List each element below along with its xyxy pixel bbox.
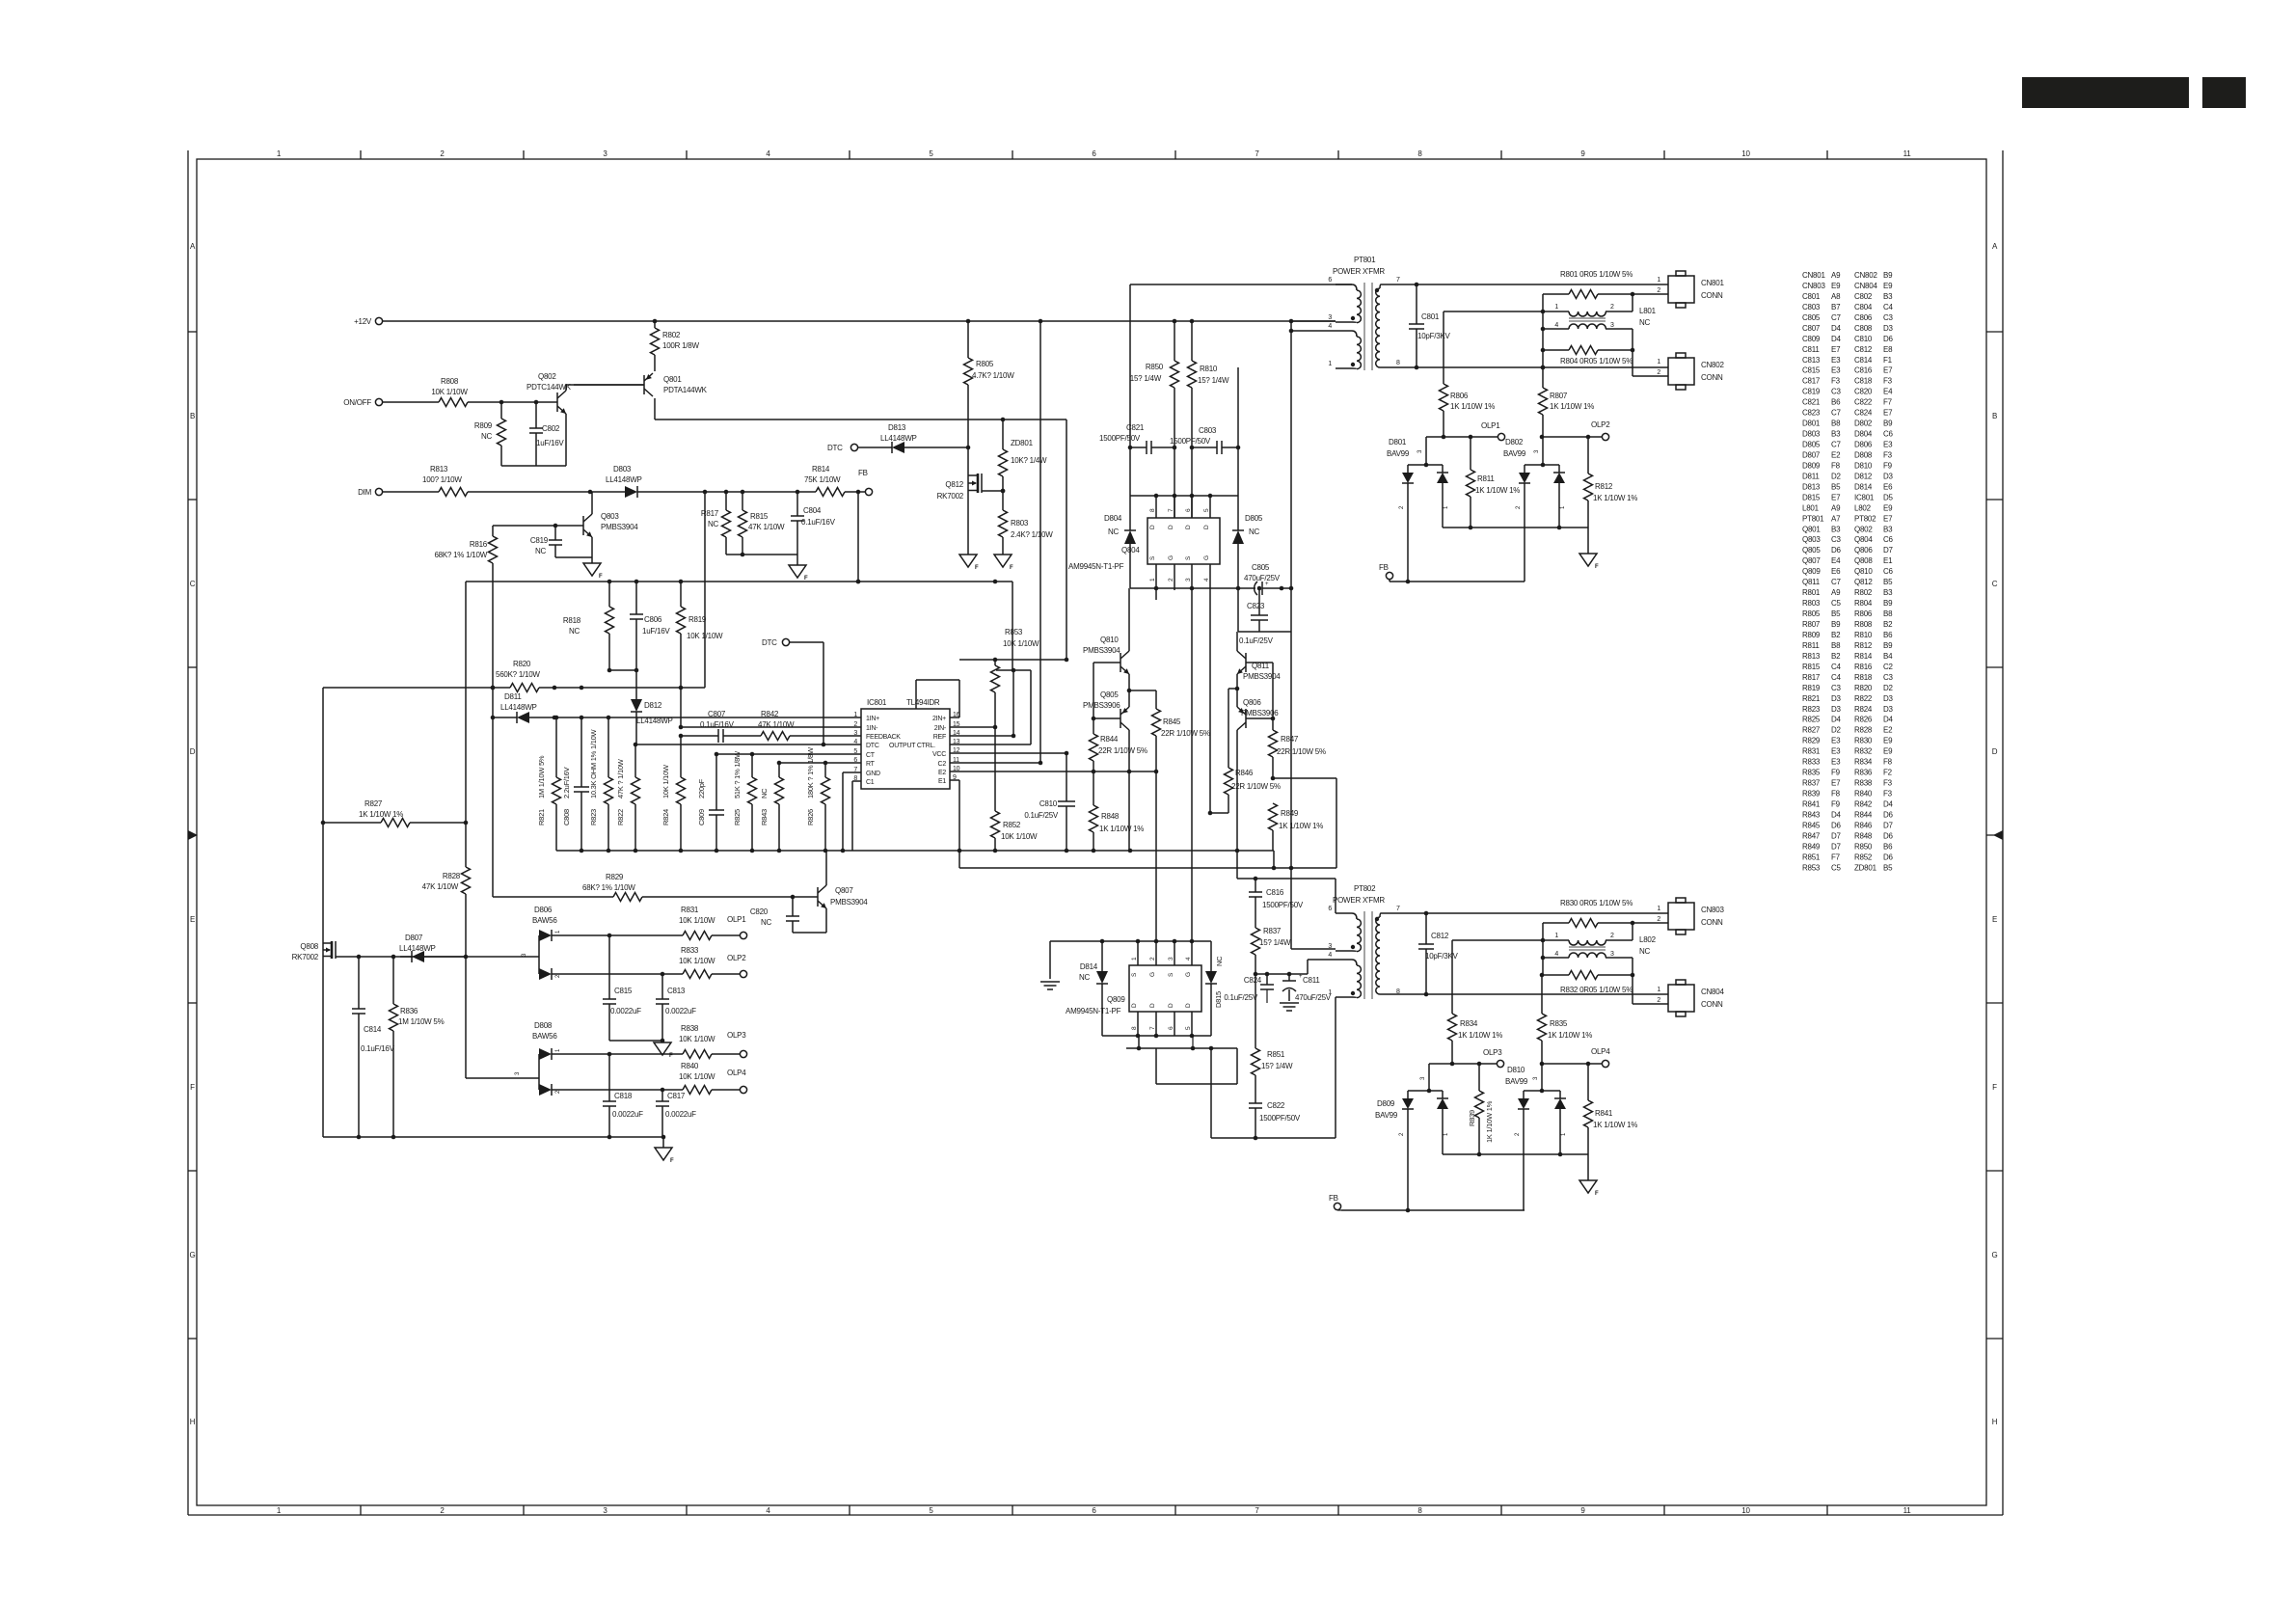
svg-text:R805: R805 (976, 360, 994, 368)
svg-text:10K 1/10W: 10K 1/10W (679, 1035, 715, 1043)
resistor R818 (563, 582, 614, 670)
svg-text:1: 1 (1444, 505, 1449, 509)
resistor R840 (679, 1062, 740, 1095)
svg-text:C801: C801 (1421, 312, 1440, 321)
svg-text:C801A8C802B3: C801A8C802B3 (1802, 292, 1893, 301)
resistor R841 (1584, 1064, 1638, 1154)
ic IC801 TL494IDR (853, 698, 959, 789)
wire ZD801 column top (1002, 420, 1004, 449)
svg-text:R822: R822 (616, 809, 625, 826)
svg-text:NC: NC (760, 788, 769, 798)
wire DTC pin line (634, 743, 861, 747)
svg-text:1: 1 (1328, 361, 1332, 367)
svg-text:C823: C823 (1247, 602, 1265, 610)
wire L802 left column (1541, 940, 1546, 975)
svg-text:2: 2 (1515, 1132, 1521, 1136)
svg-text:E1: E1 (938, 778, 946, 785)
svg-text:G: G (1168, 555, 1174, 560)
connector CN803 (1657, 898, 1724, 934)
svg-text:3: 3 (1420, 1076, 1426, 1080)
svg-text:C819C3C820E4: C819C3C820E4 (1802, 388, 1893, 396)
svg-text:3: 3 (1533, 1076, 1539, 1080)
svg-text:D802: D802 (1505, 438, 1524, 447)
svg-text:8: 8 (853, 775, 857, 782)
transistor Q811 (1235, 632, 1282, 690)
svg-text:L801A9L802E9: L801A9L802E9 (1802, 503, 1893, 512)
svg-text:ZD801: ZD801 (1011, 439, 1034, 447)
resistor R825 (733, 750, 757, 851)
svg-text:R853: R853 (1005, 628, 1023, 636)
svg-text:C803B7C804C4: C803B7C804C4 (1802, 303, 1894, 311)
resistor R832 (1543, 958, 1634, 1004)
svg-text:C814: C814 (364, 1025, 382, 1034)
wire bottom left bus (323, 1135, 665, 1140)
wire C824 C811 link (1254, 972, 1308, 977)
svg-text:R809B2R810B6: R809B2R810B6 (1802, 631, 1893, 639)
wire Q804 drain bus (1130, 494, 1238, 499)
svg-text:9: 9 (1580, 1506, 1585, 1515)
wire PT802 bottom bus (1211, 1136, 1336, 1141)
svg-text:D: D (1149, 1003, 1156, 1008)
svg-text:R823: R823 (589, 809, 598, 826)
svg-text:LL4148WP: LL4148WP (399, 944, 436, 953)
svg-text:1: 1 (277, 1506, 282, 1515)
svg-text:6: 6 (1168, 1026, 1174, 1030)
svg-text:1: 1 (1554, 933, 1558, 939)
svg-text:R827: R827 (364, 799, 383, 808)
svg-text:NC: NC (1079, 973, 1091, 982)
svg-text:15? 1/4W: 15? 1/4W (1130, 374, 1162, 383)
svg-text:Q809: Q809 (1107, 995, 1125, 1004)
node FB terminal bottom (1329, 1194, 1341, 1210)
svg-text:5: 5 (853, 748, 857, 755)
resistor R845 (1129, 690, 1210, 771)
svg-text:2: 2 (440, 1506, 445, 1515)
svg-text:F: F (1595, 1191, 1599, 1197)
svg-text:C821: C821 (1126, 423, 1145, 432)
svg-text:OLP4: OLP4 (727, 1069, 746, 1077)
svg-text:C820: C820 (750, 907, 769, 916)
svg-text:Q811C7Q812B5: Q811C7Q812B5 (1802, 578, 1893, 586)
svg-text:1: 1 (1554, 304, 1558, 311)
svg-text:FB: FB (1379, 563, 1389, 572)
svg-text:C806: C806 (644, 615, 662, 624)
svg-text:2IN-: 2IN- (934, 725, 947, 732)
transistor Q801 (574, 364, 708, 420)
resistor R822 (616, 744, 640, 851)
wire upper cross line (959, 658, 1068, 663)
wire PT802 pin1 drop (1335, 997, 1336, 1138)
svg-text:0.1uF/25V: 0.1uF/25V (1239, 636, 1274, 645)
svg-text:6: 6 (1092, 149, 1096, 158)
svg-text:8: 8 (1417, 1506, 1422, 1515)
svg-text:R848: R848 (1101, 812, 1120, 821)
svg-text:1: 1 (1131, 957, 1138, 961)
svg-text:22R 1/10W 5%: 22R 1/10W 5% (1098, 746, 1147, 755)
svg-text:S: S (1131, 972, 1138, 977)
svg-text:NC: NC (569, 627, 580, 636)
transistor Q807 (818, 851, 868, 933)
black redaction box small (2202, 77, 2246, 108)
svg-text:6: 6 (1185, 508, 1192, 512)
svg-text:D805C7D806E3: D805C7D806E3 (1802, 441, 1893, 449)
node DTC terminal upper (827, 444, 858, 452)
svg-text:REF: REF (933, 734, 946, 741)
svg-text:1K 1/10W 1%: 1K 1/10W 1% (1458, 1031, 1502, 1040)
svg-text:R816: R816 (470, 540, 488, 549)
svg-text:R843: R843 (760, 809, 769, 826)
ground R812 (1579, 528, 1599, 570)
resistor R824 (661, 736, 686, 851)
wire DTC (858, 447, 892, 448)
capacitor C812 (1418, 913, 1458, 995)
svg-text:L801: L801 (1639, 307, 1657, 315)
svg-text:2.2uF/16V: 2.2uF/16V (562, 767, 571, 798)
wire C1 line (852, 781, 861, 851)
wire R829 line (493, 893, 818, 902)
svg-text:6: 6 (1328, 906, 1332, 912)
svg-text:0.1uF/25V: 0.1uF/25V (1024, 811, 1059, 820)
wire E2 net (950, 770, 1158, 774)
diode D812 (631, 670, 673, 744)
wire FB right (1390, 580, 1525, 584)
svg-text:C: C (1992, 580, 1998, 588)
svg-text:R814: R814 (812, 465, 830, 474)
wire feedback left drop (465, 582, 467, 823)
svg-text:R831: R831 (681, 906, 699, 914)
resistor R839 (1468, 1064, 1494, 1154)
svg-text:0.0022uF: 0.0022uF (610, 1007, 641, 1015)
resistor R819 (677, 582, 724, 688)
svg-text:10K 1/10W: 10K 1/10W (679, 916, 715, 925)
svg-text:S: S (1168, 972, 1174, 977)
svg-text:3: 3 (515, 1071, 521, 1075)
svg-text:E2: E2 (938, 770, 946, 776)
svg-text:R836: R836 (400, 1007, 418, 1015)
svg-text:Q801B3Q802B3: Q801B3Q802B3 (1802, 525, 1893, 533)
svg-text:0.0022uF: 0.0022uF (665, 1110, 696, 1119)
inductor L801 core (1569, 318, 1606, 321)
resistor R849 (1269, 803, 1324, 851)
svg-text:R806: R806 (1450, 392, 1469, 400)
svg-text:R841F9R842D4: R841F9R842D4 (1802, 800, 1894, 809)
svg-text:47K 1/10W: 47K 1/10W (748, 523, 785, 531)
connector CN801 (1657, 271, 1724, 308)
diode D809 (1375, 1064, 1449, 1210)
node OLP2 (1540, 420, 1611, 441)
svg-text:7: 7 (1255, 1506, 1259, 1515)
svg-text:1K 1/10W 1%: 1K 1/10W 1% (1593, 494, 1637, 502)
svg-text:C822: C822 (1267, 1101, 1285, 1110)
svg-text:5: 5 (929, 1506, 933, 1515)
svg-text:R812: R812 (1595, 482, 1613, 491)
svg-text:R817: R817 (701, 509, 719, 518)
svg-text:AM9945N-T1-PF: AM9945N-T1-PF (1066, 1007, 1121, 1015)
svg-text:2: 2 (853, 721, 857, 728)
svg-text:47K 1/10W: 47K 1/10W (422, 882, 459, 891)
node DTC terminal lower (762, 638, 790, 647)
wire REF drop (996, 582, 1015, 738)
svg-text:F: F (670, 1158, 674, 1164)
transformer PT801 pin numbers (1328, 277, 1400, 367)
svg-text:4: 4 (1328, 952, 1332, 959)
resistor R842 label (758, 710, 795, 729)
svg-text:2: 2 (1657, 997, 1660, 1004)
resistor R820 (496, 660, 540, 692)
svg-text:1K 1/10W 1%: 1K 1/10W 1% (1593, 1121, 1637, 1129)
wire Q801 collector to VCC line (655, 418, 1066, 660)
svg-text:R827D2R828E2: R827D2R828E2 (1802, 726, 1893, 735)
svg-text:C823C7C824E7: C823C7C824E7 (1802, 409, 1893, 418)
node OLP3 output (727, 1031, 747, 1058)
capacitor C818 (603, 1054, 643, 1137)
svg-text:11: 11 (1903, 149, 1912, 158)
svg-text:22R 1/10W 5%: 22R 1/10W 5% (1161, 729, 1210, 738)
svg-text:CN801: CN801 (1701, 279, 1724, 287)
wire D806 pin1 line (552, 934, 683, 938)
svg-text:F: F (975, 565, 979, 571)
svg-text:10K 1/10W: 10K 1/10W (679, 1072, 715, 1081)
svg-text:0.0022uF: 0.0022uF (612, 1110, 643, 1119)
svg-text:C2: C2 (938, 761, 947, 768)
svg-text:2.4K? 1/10W: 2.4K? 1/10W (1011, 530, 1053, 539)
resistor R834 (1448, 940, 1503, 1064)
transistor Q810 (1083, 588, 1131, 692)
svg-text:BAV99: BAV99 (1375, 1111, 1398, 1120)
transformer PT802 polarity dots (1351, 917, 1379, 995)
svg-text:TL494IDR: TL494IDR (906, 698, 940, 707)
svg-text:R821D3R822D3: R821D3R822D3 (1802, 694, 1894, 703)
svg-text:PMBS3904: PMBS3904 (601, 523, 638, 531)
resistor R823 (589, 717, 613, 851)
capacitor C803 (1170, 426, 1238, 454)
svg-text:5: 5 (1185, 1026, 1192, 1030)
svg-text:FB: FB (858, 469, 868, 477)
svg-text:D: D (1185, 1003, 1192, 1008)
svg-text:C815: C815 (614, 987, 633, 995)
transistor Q803 (493, 492, 638, 563)
svg-text:1500PF/50V: 1500PF/50V (1262, 901, 1304, 909)
svg-text:F: F (1595, 564, 1599, 570)
transformer PT801 polarity dots (1351, 288, 1379, 366)
svg-text:22R 1/10W 5%: 22R 1/10W 5% (1277, 747, 1326, 756)
wire PT802 pin3 (1291, 868, 1336, 949)
resistor R851 (1252, 974, 1293, 1103)
svg-text:C808: C808 (562, 809, 571, 826)
node OLP1 output (727, 915, 747, 939)
svg-text:6: 6 (1328, 277, 1332, 284)
svg-text:OLP3: OLP3 (1483, 1048, 1502, 1057)
wire R803 to ground (1002, 537, 1004, 555)
svg-text:IC801: IC801 (867, 698, 887, 707)
svg-text:OUTPUT CTRL.: OUTPUT CTRL. (889, 743, 935, 749)
ground R805 (959, 555, 979, 571)
resistor R850 (1130, 321, 1179, 518)
resistor R806 (1440, 311, 1496, 437)
svg-text:2: 2 (1610, 933, 1614, 939)
svg-text:D801: D801 (1389, 438, 1407, 447)
diode D808 (532, 1021, 561, 1096)
resistor R815 (739, 492, 786, 555)
svg-text:C809D4C810D6: C809D4C810D6 (1802, 335, 1894, 343)
resistor R852 (991, 811, 1039, 851)
svg-text:Q803C3Q804C6: Q803C3Q804C6 (1802, 535, 1894, 544)
svg-text:3: 3 (1168, 957, 1174, 961)
svg-text:R833: R833 (681, 946, 699, 955)
svg-text:R839F8R840F3: R839F8R840F3 (1802, 790, 1893, 798)
svg-text:3: 3 (1610, 322, 1614, 329)
capacitor C813 (656, 974, 696, 1041)
transformer PT802 secondary (1376, 913, 1386, 994)
svg-text:+12V: +12V (354, 317, 372, 326)
svg-text:D815: D815 (1214, 991, 1223, 1008)
wire R813 to D803 (468, 490, 625, 495)
svg-text:C811E7C812E8: C811E7C812E8 (1802, 345, 1893, 354)
svg-text:C817: C817 (667, 1092, 686, 1100)
svg-text:10K 1/10W: 10K 1/10W (1001, 832, 1038, 841)
svg-text:R802: R802 (662, 331, 681, 339)
svg-text:1: 1 (555, 930, 561, 934)
svg-text:2: 2 (1399, 505, 1405, 509)
wire C815 C813 join (609, 1039, 664, 1043)
resistor R844 (1090, 734, 1147, 771)
svg-text:0.1uF/25V: 0.1uF/25V (1224, 993, 1258, 1002)
diode D806 (522, 906, 561, 980)
svg-text:D: D (1203, 525, 1210, 529)
svg-text:R805B5R806B8: R805B5R806B8 (1802, 609, 1893, 618)
capacitor C819 (530, 526, 592, 557)
node +12V terminal (354, 317, 383, 326)
svg-text:PDTC144WK: PDTC144WK (526, 383, 572, 392)
svg-text:NC: NC (761, 918, 772, 927)
svg-text:R826: R826 (806, 809, 815, 826)
svg-text:R838: R838 (681, 1024, 699, 1033)
svg-text:1: 1 (1657, 359, 1660, 365)
svg-text:47K 1/10W: 47K 1/10W (758, 720, 795, 729)
resistor R835 (1538, 973, 1593, 1064)
wire PT802 pin8 (1386, 992, 1668, 997)
svg-text:CONN: CONN (1701, 918, 1723, 927)
svg-text:D806: D806 (534, 906, 553, 914)
svg-text:3: 3 (1610, 951, 1614, 958)
svg-text:10K 1/10W: 10K 1/10W (1003, 639, 1039, 648)
svg-text:1: 1 (555, 1048, 561, 1052)
svg-text:R851: R851 (1267, 1050, 1285, 1059)
svg-text:R839: R839 (1468, 1110, 1476, 1126)
svg-text:4: 4 (1185, 957, 1192, 961)
svg-text:FEEDBACK: FEEDBACK (866, 734, 901, 741)
svg-text:BAW56: BAW56 (532, 916, 557, 925)
svg-text:D804: D804 (1104, 514, 1122, 523)
svg-text:D: D (1185, 525, 1192, 529)
svg-text:PMBS3906: PMBS3906 (1083, 701, 1120, 710)
svg-text:Q802: Q802 (538, 372, 556, 381)
svg-text:470uF/25V: 470uF/25V (1244, 574, 1281, 582)
svg-text:D811D2D812D3: D811D2D812D3 (1802, 472, 1894, 480)
ground Q803 (583, 563, 603, 580)
svg-text:G: G (1992, 1251, 1998, 1259)
svg-text:A: A (190, 242, 196, 251)
svg-text:C805: C805 (1252, 563, 1270, 572)
wire REF net (950, 735, 1013, 737)
svg-text:8: 8 (1149, 508, 1156, 512)
node FB terminal right (1379, 563, 1393, 580)
svg-text:R844: R844 (1100, 735, 1119, 744)
resistor R833 (679, 946, 740, 979)
svg-text:R815: R815 (750, 512, 769, 521)
svg-text:R813B2R814B4: R813B2R814B4 (1802, 652, 1893, 661)
svg-text:R811: R811 (1477, 474, 1495, 483)
svg-text:R819C3R820D2: R819C3R820D2 (1802, 684, 1894, 692)
component location reference table (1802, 271, 1894, 872)
svg-text:R811B8R812B9: R811B8R812B9 (1802, 641, 1893, 650)
svg-text:C815E3C816E7: C815E3C816E7 (1802, 366, 1893, 375)
svg-text:E: E (1992, 915, 1997, 924)
wire ON/OFF (383, 401, 439, 403)
svg-text:G: G (1149, 972, 1156, 977)
wire VCC column lower (1066, 753, 1067, 851)
capacitor C804 (791, 492, 836, 555)
svg-text:1: 1 (1444, 1132, 1449, 1136)
capacitor C821 (1099, 423, 1174, 454)
svg-text:15? 1/4W: 15? 1/4W (1259, 938, 1291, 947)
wire GND line (843, 772, 861, 851)
svg-text:1: 1 (1560, 505, 1566, 509)
wire FB to feedback node (856, 492, 861, 583)
svg-text:8: 8 (1417, 149, 1422, 158)
svg-text:C821B6C822F7: C821B6C822F7 (1802, 398, 1893, 407)
svg-text:NC: NC (535, 547, 547, 555)
svg-text:H: H (190, 1418, 196, 1426)
svg-text:0.1uF/16V: 0.1uF/16V (801, 518, 836, 527)
svg-text:C812: C812 (1431, 932, 1449, 940)
svg-text:R801 0R05 1/10W 5%: R801 0R05 1/10W 5% (1560, 270, 1633, 279)
svg-text:BAV99: BAV99 (1503, 449, 1526, 458)
transformer PT802 pin numbers (1328, 906, 1400, 996)
svg-text:B: B (1992, 412, 1997, 420)
wire FEEDBACK line (679, 729, 861, 743)
wire E1 bus (959, 866, 1336, 871)
svg-text:1K 1/10W 1%: 1K 1/10W 1% (1550, 402, 1594, 411)
resistor R853 (991, 628, 1040, 811)
zener ZD801 (999, 439, 1048, 476)
wire CN803 pin2 (1633, 922, 1668, 924)
svg-text:2: 2 (1516, 505, 1522, 509)
svg-text:Q807: Q807 (835, 886, 853, 895)
svg-text:G: G (1203, 555, 1210, 560)
svg-text:R835F9R836F2: R835F9R836F2 (1802, 769, 1893, 777)
svg-text:11: 11 (1903, 1506, 1912, 1515)
svg-text:PMBS3904: PMBS3904 (1083, 646, 1120, 655)
svg-text:C805C7C806C3: C805C7C806C3 (1802, 313, 1894, 322)
svg-text:R825D4R826D4: R825D4R826D4 (1802, 716, 1894, 724)
wire Q811 base column (1272, 663, 1274, 730)
ground R841 (1579, 1154, 1599, 1197)
svg-text:100R 1/8W: 100R 1/8W (662, 341, 699, 350)
svg-text:Q803: Q803 (601, 512, 619, 521)
svg-text:R835: R835 (1550, 1019, 1568, 1028)
wire node A (1444, 310, 1545, 314)
svg-text:R832 0R05 1/10W 5%: R832 0R05 1/10W 5% (1560, 986, 1633, 994)
svg-text:10K 1/10W: 10K 1/10W (661, 764, 670, 798)
wire Q802 emitter bottom (501, 465, 566, 467)
svg-text:1IN+: 1IN+ (866, 716, 879, 722)
svg-text:CONN: CONN (1701, 1000, 1723, 1009)
svg-text:AM9945N-T1-PF: AM9945N-T1-PF (1068, 562, 1124, 571)
svg-text:3: 3 (1328, 314, 1332, 321)
resistor R801 (1543, 270, 1634, 311)
svg-text:POWER X'FMR: POWER X'FMR (1333, 896, 1385, 905)
